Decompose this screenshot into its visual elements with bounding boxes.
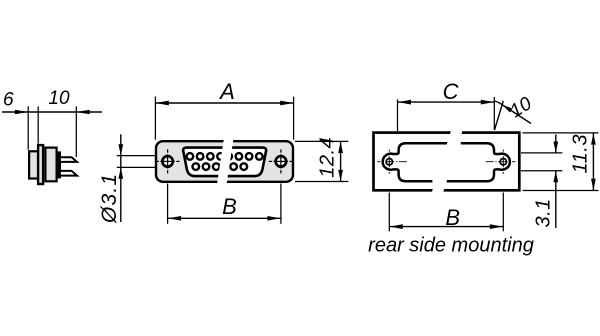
svg-text:Ø3.1: Ø3.1 xyxy=(98,173,121,224)
svg-text:11.3: 11.3 xyxy=(570,134,592,173)
svg-text:12.4: 12.4 xyxy=(317,137,339,178)
svg-text:6: 6 xyxy=(3,90,14,111)
svg-text:A: A xyxy=(218,79,235,104)
svg-text:10: 10 xyxy=(48,88,70,109)
svg-text:3.1: 3.1 xyxy=(533,198,555,227)
svg-text:B: B xyxy=(222,194,237,219)
svg-text:C: C xyxy=(443,79,459,104)
svg-text:rear side mounting: rear side mounting xyxy=(368,235,534,257)
svg-text:B: B xyxy=(445,205,460,230)
